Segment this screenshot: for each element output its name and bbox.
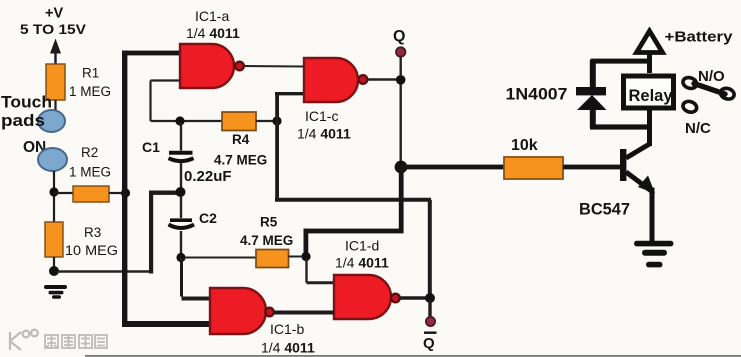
wire R4 to QB riser [256, 120, 275, 122]
svg-text:+V: +V [45, 6, 63, 22]
gate IC1-d [334, 275, 391, 319]
node Q upper [396, 75, 406, 85]
wire to Q terminal [400, 57, 402, 76]
svg-text:N/O: N/O [698, 68, 725, 85]
resistor R4 [222, 112, 256, 131]
wire down to IC1-b upper input [180, 258, 183, 297]
svg-text:5 TO 15V: 5 TO 15V [20, 21, 87, 37]
wire IC1-c lower input [275, 92, 304, 95]
wire vertical riser x=151 [149, 191, 153, 274]
battery arrow [637, 31, 663, 53]
emitter arrowhead [638, 176, 655, 194]
wire down to node X [149, 81, 151, 122]
diode 1N4007 [576, 60, 607, 128]
capacitor C2 [169, 196, 195, 254]
svg-text:4.7 MEG: 4.7 MEG [240, 233, 293, 248]
svg-text:10k: 10k [511, 137, 538, 154]
svg-text:R4: R4 [232, 132, 250, 147]
bubble IC1-a [235, 62, 244, 71]
wire node to R3 [53, 196, 55, 222]
resistor R2 [73, 186, 109, 202]
svg-text:4.7 MEG: 4.7 MEG [214, 153, 267, 168]
node R5/feedback [301, 252, 310, 261]
bubble IC1-b [265, 308, 274, 317]
wire node X horizontal [151, 120, 223, 122]
svg-text:Touch: Touch [1, 94, 52, 112]
gate IC1-c [304, 58, 358, 102]
svg-text:C1: C1 [142, 139, 160, 155]
wire QB riser vertical x=277 [275, 92, 279, 202]
svg-text:+Battery: +Battery [665, 29, 734, 46]
wire IC1-c output [368, 78, 399, 81]
wire R1 to pad1 [54, 100, 56, 111]
wire bus to IC1-a input [122, 51, 181, 56]
wire diode bottom branch [590, 124, 651, 129]
wire Q node down [399, 167, 404, 231]
terminal Q [396, 47, 405, 56]
capacitor C1 [169, 123, 194, 188]
wire IC1-a output to IC1-c input [244, 65, 304, 68]
wire QB vertical x=430 [428, 200, 432, 298]
junction R2/bus [121, 188, 130, 197]
wire diode top branch [591, 59, 652, 64]
wire IC1-b output to IC1-d input [274, 311, 334, 315]
resistor R3 [45, 222, 63, 257]
node X junction [175, 116, 184, 125]
wire IC1-b upper input [182, 297, 212, 301]
wire ground node to C-mid branch [57, 270, 151, 272]
gate IC1-a [180, 44, 234, 88]
svg-text:N/C: N/C [685, 120, 711, 137]
contact lever [694, 84, 725, 94]
base bar [620, 149, 626, 181]
svg-text:10 MEG: 10 MEG [65, 243, 118, 258]
svg-text:IC1-d: IC1-d [345, 238, 379, 254]
svg-text:BC547: BC547 [579, 200, 630, 219]
ground (left) [44, 285, 67, 299]
svg-text:1 MEG: 1 MEG [69, 165, 111, 180]
gate IC1-b [210, 288, 266, 334]
contact N/C [682, 100, 699, 114]
QB label [424, 332, 437, 334]
svg-text:1N4007: 1N4007 [506, 85, 568, 104]
svg-text:1 MEG: 1 MEG [69, 84, 111, 99]
svg-text:Q: Q [393, 28, 405, 45]
node pads/R2/R3 [49, 187, 58, 196]
wire bus to IC1-b input [123, 321, 212, 327]
wire R3 to ground node [53, 257, 55, 269]
wire IC1-d upper input [307, 281, 336, 284]
svg-text:R3: R3 [84, 225, 101, 240]
node QB output [425, 293, 435, 303]
touch pad upper [38, 110, 65, 132]
relay coil box [624, 76, 674, 108]
node C1/C2/ground [176, 187, 186, 197]
svg-text:0.22uF: 0.22uF [184, 168, 232, 185]
input bus vertical [122, 51, 127, 327]
resistor 10k [504, 157, 563, 179]
contact common [719, 87, 736, 101]
wire R2 to bus [109, 192, 124, 194]
svg-text:IC1-a: IC1-a [195, 8, 229, 24]
svg-text:IC1-c: IC1-c [305, 108, 338, 124]
wire pad2 down [53, 171, 55, 190]
wire IC1-d output [400, 296, 428, 300]
wire C2 node to R5 [185, 257, 256, 259]
node R3/ground [49, 266, 59, 276]
node Q main [395, 161, 408, 174]
svg-text:pads: pads [1, 112, 45, 130]
touch pad lower [38, 148, 67, 171]
svg-text:1/4 4011: 1/4 4011 [261, 340, 315, 356]
svg-text:R1: R1 [82, 66, 99, 81]
wire Q feedback vertical x=306 [304, 229, 309, 255]
wire R5 to node [289, 256, 304, 258]
wire Q node to 10k [401, 165, 505, 170]
wire riser to C1/C2 node [149, 191, 178, 195]
bubble IC1-d [391, 294, 400, 303]
wire node down to IC1-d input [305, 259, 307, 283]
ground (emitter) [634, 241, 674, 268]
svg-text:IC1-b: IC1-b [270, 321, 304, 337]
resistor R1 [46, 64, 65, 100]
wire relay to collector [647, 110, 652, 146]
junction R4/QB riser [272, 116, 281, 125]
wire Q down to main node [400, 84, 402, 162]
node C2/R5/IC1-b [176, 253, 185, 262]
svg-text:1/4 4011: 1/4 4011 [335, 255, 389, 271]
+V supply arrow [50, 39, 61, 65]
svg-text:C2: C2 [199, 210, 217, 226]
wire to QB terminal [428, 300, 431, 317]
svg-text:Relay: Relay [629, 87, 674, 105]
wire node to R2 [54, 192, 73, 194]
transistor Q1 BC547 [620, 112, 652, 243]
terminal QB [426, 317, 435, 326]
svg-text:1/4 4011: 1/4 4011 [297, 126, 351, 142]
svg-text:R5: R5 [260, 215, 278, 230]
wire Q feedback horizontal y=231 [304, 229, 404, 234]
svg-text:Q: Q [423, 335, 435, 352]
resistor R5 [256, 250, 289, 268]
collector lead [626, 112, 650, 158]
bottom border [85, 355, 741, 357]
svg-text:R2: R2 [81, 145, 98, 160]
watermark [10, 330, 107, 350]
wire QB horizontal y=200 [275, 198, 431, 202]
contact N/O [682, 76, 699, 90]
wire 10k to base [563, 165, 621, 170]
bubble IC1-c [359, 75, 368, 84]
wire IC1-a lower input [151, 79, 181, 81]
wire battery to relay [647, 53, 652, 73]
emitter lead [626, 172, 652, 243]
svg-text:1/4 4011: 1/4 4011 [186, 25, 240, 41]
